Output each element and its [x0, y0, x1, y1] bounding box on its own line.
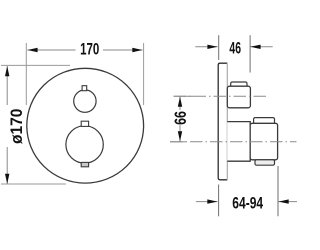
- dim 46 right arrow: [250, 45, 260, 49]
- dim 46 right tail: [250, 46, 272, 48]
- volume handle body side view: [250, 123, 277, 160]
- temperature knob side view cap: [231, 82, 247, 88]
- dim 170 right arrow: [132, 48, 142, 52]
- dim 64-94 left extension line: [218, 185, 220, 217]
- svg-text:ø170: ø170: [8, 109, 26, 145]
- dim 64-94 right extension line: [277, 166, 279, 216]
- svg-text:64-94: 64-94: [232, 194, 263, 212]
- dim 64-94 right arrow: [279, 199, 289, 203]
- dim dia170 line bottom segment: [6, 147, 8, 184]
- dim 46 left extension line: [218, 35, 220, 60]
- wall plate side view: [218, 63, 227, 180]
- svg-text:66: 66: [172, 111, 190, 125]
- dim 66 down arrow: [178, 131, 182, 141]
- dim 66 line top segment: [179, 97, 181, 110]
- dim 170 left extension line: [25, 43, 27, 105]
- dim dia170 bottom extension line: [1, 183, 66, 185]
- dim 46 left tail: [195, 46, 217, 48]
- dim 170 line left segment: [27, 49, 75, 51]
- dim 46 left arrow: [207, 45, 217, 49]
- centerline temperature axis: [174, 95, 269, 97]
- dim dia170 down arrow: [5, 174, 9, 184]
- dim dia170 line top segment: [6, 66, 8, 105]
- faceplate circle front view: [27, 68, 144, 183]
- volume handle cap top: [254, 118, 275, 125]
- volume knob front view: [66, 126, 103, 163]
- dim 170 left arrow: [27, 48, 37, 52]
- dim 64-94 right tail: [279, 201, 298, 203]
- dim 170 right extension line: [143, 43, 145, 105]
- dim 66 bottom extension line: [170, 141, 186, 143]
- volume handle cap bottom: [255, 160, 275, 165]
- dim dia170 up arrow: [5, 66, 9, 76]
- dim 64-94 left arrow: [207, 199, 217, 203]
- dim 66 line bottom segment: [179, 125, 181, 141]
- svg-text:46: 46: [229, 40, 241, 58]
- volume handle sleeve side view: [227, 122, 250, 162]
- dim 170 line right segment: [103, 49, 143, 51]
- dim 66 top extension line: [174, 95, 194, 97]
- temperature knob side view body: [227, 86, 250, 108]
- volume knob bottom notch: [81, 162, 88, 166]
- wall plate front edge: [226, 63, 228, 180]
- temperature knob notch: [82, 86, 87, 91]
- dim 46 right extension line: [249, 35, 251, 72]
- dim 64-94 left tail: [196, 201, 218, 203]
- centerline volume axis: [170, 141, 297, 143]
- dim dia170 top extension line: [1, 64, 70, 66]
- temperature knob front view: [74, 90, 96, 112]
- svg-text:170: 170: [80, 40, 99, 58]
- volume knob top notch: [81, 121, 88, 126]
- dim 66 up arrow: [178, 97, 182, 107]
